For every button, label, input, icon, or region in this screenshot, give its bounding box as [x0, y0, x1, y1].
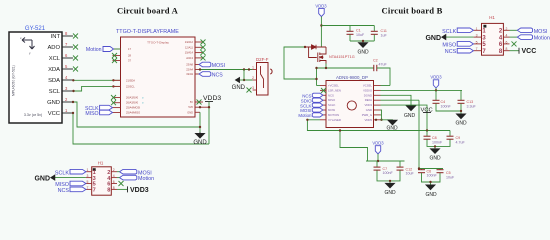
svg-text:ADO: ADO: [47, 45, 60, 51]
svg-text:100nF: 100nF: [383, 171, 394, 175]
svg-text:TTGO-T-Display: TTGO-T-Display: [147, 41, 169, 45]
svg-text:DGND: DGND: [364, 93, 372, 97]
svg-text:XYLASER: XYLASER: [328, 118, 341, 122]
svg-text:Circuit board A: Circuit board A: [117, 6, 179, 16]
svg-text:15/A14: 15/A14: [185, 51, 194, 55]
svg-text:SDA: SDA: [48, 78, 60, 84]
svg-text:GND: GND: [404, 113, 416, 119]
svg-text:GY-521: GY-521: [25, 26, 46, 32]
svg-text:12/A11: 12/A11: [185, 45, 194, 49]
svg-text:2: 2: [252, 76, 254, 80]
svg-text:VDDIO: VDDIO: [363, 88, 373, 92]
svg-text:REFA: REFA: [365, 98, 372, 102]
svg-text:MISO: MISO: [85, 111, 98, 117]
svg-text:8: 8: [113, 186, 115, 190]
svg-text:Motion: Motion: [86, 47, 102, 53]
svg-text:4: 4: [506, 34, 508, 38]
svg-text:13/A12: 13/A12: [185, 40, 194, 44]
svg-text:MOTION: MOTION: [328, 113, 339, 117]
svg-text:D2F-F: D2F-F: [256, 57, 269, 62]
svg-text:100nF: 100nF: [432, 140, 443, 144]
svg-text:26/A3/5V0: 26/A3/5V0: [126, 96, 139, 100]
svg-text:25/A4/MOSI: 25/A4/MOSI: [126, 106, 140, 110]
svg-text:H1: H1: [98, 161, 104, 166]
svg-text:VDD3: VDD3: [315, 4, 327, 9]
svg-text:PWR_G: PWR_G: [362, 113, 372, 117]
svg-text:22/A4: 22/A4: [186, 68, 193, 72]
svg-text:GND: GND: [47, 100, 60, 106]
svg-text:GND: GND: [187, 110, 193, 114]
svg-text:SCLK: SCLK: [55, 170, 69, 176]
svg-text:21/SDA: 21/SDA: [126, 78, 135, 82]
svg-text:MISO: MISO: [442, 42, 456, 48]
svg-text:GND: GND: [425, 192, 437, 198]
svg-text:LSR_NEN: LSR_NEN: [328, 88, 341, 92]
svg-text:1: 1: [252, 66, 254, 70]
svg-text:XDA: XDA: [48, 67, 60, 73]
svg-text:VDD3: VDD3: [365, 103, 373, 107]
svg-text:3: 3: [476, 34, 478, 38]
svg-text:3.3v (or 5v): 3.3v (or 5v): [24, 113, 42, 117]
svg-text:47uF: 47uF: [379, 63, 388, 67]
svg-text:26/A3/5V0: 26/A3/5V0: [126, 101, 139, 105]
svg-text:3: 3: [87, 174, 89, 178]
svg-text:MISO: MISO: [328, 98, 336, 102]
svg-text:GND: GND: [193, 140, 207, 146]
svg-text:2: 2: [113, 168, 115, 172]
svg-text:7: 7: [87, 186, 89, 190]
svg-text:NCS: NCS: [58, 188, 70, 194]
svg-text:NCS: NCS: [328, 93, 334, 97]
svg-text:1: 1: [87, 168, 89, 172]
svg-text:100nF: 100nF: [441, 104, 452, 108]
svg-text:VDD3: VDD3: [203, 95, 221, 102]
svg-text:8: 8: [107, 188, 110, 194]
svg-text:VCC: VCC: [522, 48, 537, 55]
svg-text:MPU-6050 (GY-521): MPU-6050 (GY-521): [12, 65, 16, 96]
svg-text:XCL: XCL: [49, 56, 61, 62]
svg-text:4: 4: [113, 174, 115, 178]
svg-text:VCSEL: VCSEL: [363, 84, 373, 88]
svg-text:1uF: 1uF: [381, 33, 388, 37]
svg-text:Motion: Motion: [534, 36, 550, 42]
svg-text:GND: GND: [425, 35, 441, 42]
svg-text:23/A8: 23/A8: [186, 63, 193, 67]
svg-text:22/SCL: 22/SCL: [126, 84, 135, 88]
svg-text:10uF: 10uF: [406, 172, 415, 176]
svg-text:GND: GND: [366, 108, 372, 112]
svg-text:Motion: Motion: [138, 176, 154, 182]
svg-text:5: 5: [87, 180, 89, 184]
svg-text:GND: GND: [429, 156, 441, 162]
svg-text:VDD3: VDD3: [372, 141, 384, 146]
svg-text:VCC: VCC: [48, 111, 60, 117]
svg-text:8: 8: [506, 47, 508, 51]
svg-text:25/A4/MISO: 25/A4/MISO: [126, 111, 140, 115]
svg-text:SCLK: SCLK: [328, 103, 335, 107]
svg-text:GND: GND: [357, 50, 369, 56]
svg-text:NTA4151PT1G: NTA4151PT1G: [329, 55, 355, 59]
svg-text:GND: GND: [384, 190, 396, 196]
svg-text:GND: GND: [386, 126, 398, 132]
svg-text:7: 7: [93, 188, 96, 194]
svg-text:1: 1: [476, 27, 478, 31]
svg-text:INT: INT: [51, 34, 61, 40]
svg-text:10uF: 10uF: [446, 175, 455, 179]
svg-text:5V: 5V: [190, 100, 193, 104]
svg-text:NCS: NCS: [212, 73, 223, 79]
svg-text:+VCSEL: +VCSEL: [328, 84, 339, 88]
svg-text:6: 6: [113, 180, 115, 184]
svg-text:VDD3: VDD3: [130, 187, 149, 194]
svg-text:19/A9: 19/A9: [186, 72, 193, 76]
svg-text:6: 6: [506, 40, 508, 44]
svg-text:C2: C2: [373, 59, 378, 63]
svg-text:VDD3: VDD3: [430, 75, 442, 80]
svg-text:10uF: 10uF: [356, 33, 365, 37]
svg-text:7: 7: [476, 47, 478, 51]
svg-text:H1: H1: [489, 15, 495, 20]
svg-text:GND: GND: [34, 175, 50, 182]
svg-text:Circuit board B: Circuit board B: [381, 6, 442, 16]
svg-text:SCLK: SCLK: [442, 29, 456, 35]
svg-text:MOSI: MOSI: [534, 29, 548, 35]
svg-text:MOSI: MOSI: [212, 63, 225, 69]
svg-text:5: 5: [476, 40, 478, 44]
svg-text:2/A13: 2/A13: [186, 56, 193, 60]
svg-text:Motion: Motion: [298, 113, 312, 118]
svg-text:4.7uF: 4.7uF: [456, 140, 466, 144]
svg-text:GND: GND: [232, 85, 246, 91]
svg-text:VDD5: VDD5: [365, 118, 373, 122]
svg-text:MOSI: MOSI: [328, 108, 335, 112]
svg-text:3: 3: [252, 86, 254, 90]
svg-text:TTGO-T-DISPLAYFRAME: TTGO-T-DISPLAYFRAME: [116, 29, 179, 35]
svg-text:5V0: 5V0: [188, 105, 193, 109]
svg-text:100nF: 100nF: [427, 174, 438, 178]
svg-text:SCL: SCL: [49, 89, 61, 95]
svg-text:3.3uF: 3.3uF: [467, 104, 477, 108]
svg-text:2: 2: [506, 27, 508, 31]
svg-text:ADNS-9800_DP: ADNS-9800_DP: [336, 75, 368, 80]
svg-text:GND: GND: [455, 121, 467, 127]
svg-text:NCS: NCS: [445, 49, 457, 55]
